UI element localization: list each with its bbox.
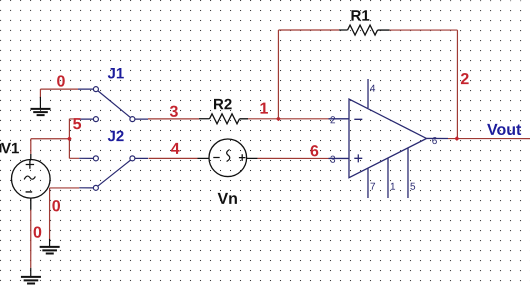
- junction dot node 1: [276, 116, 281, 121]
- svg-text:R2: R2: [213, 96, 232, 113]
- cropped glyph at left edge: [0, 144, 1, 153]
- wire feedback vertical left: [278, 30, 339, 119]
- switch J1: [78, 89, 148, 119]
- wire net 5 (V1+ to J1/J2 throws): [31, 119, 79, 159]
- svg-text:2: 2: [330, 115, 336, 126]
- svg-text:V1: V1: [1, 140, 19, 157]
- svg-text:0: 0: [57, 74, 66, 91]
- svg-text:4: 4: [171, 141, 180, 158]
- svg-text:4: 4: [370, 84, 376, 95]
- svg-text:2: 2: [460, 71, 469, 88]
- noise source Vn: [197, 139, 257, 177]
- svg-text:5: 5: [410, 182, 416, 193]
- svg-text:J1: J1: [108, 65, 125, 82]
- svg-text:Vout: Vout: [487, 122, 522, 139]
- junction dot node 5: [67, 136, 72, 141]
- svg-text:6: 6: [310, 143, 319, 160]
- svg-text:5: 5: [73, 116, 82, 133]
- resistor R2: [199, 114, 248, 124]
- wire net 6: [258, 157, 329, 159]
- wire Vout output: [448, 138, 530, 140]
- wire V1 minus to ground 0: [30, 210, 32, 268]
- svg-text:3: 3: [170, 104, 179, 121]
- svg-text:R1: R1: [351, 8, 370, 25]
- svg-text:0: 0: [33, 225, 42, 242]
- wire net 3: [148, 118, 199, 120]
- switch J2: [79, 158, 148, 188]
- junction dot output node: [454, 136, 459, 141]
- svg-text:6: 6: [432, 136, 438, 147]
- svg-text:Vn: Vn: [217, 191, 237, 208]
- ground 0 (top left): [31, 97, 51, 115]
- wire net 2: [390, 30, 458, 139]
- voltage source V1: [11, 154, 50, 210]
- svg-text:1: 1: [260, 101, 269, 118]
- svg-text:0: 0: [52, 198, 61, 215]
- wire net 4: [148, 157, 197, 159]
- ground 0 (J2): [40, 239, 60, 254]
- wire J2 bottom throw to ground: [50, 188, 80, 240]
- wire V1 plus lead: [30, 139, 32, 154]
- svg-text:3: 3: [330, 155, 336, 166]
- wire net 1: [248, 118, 329, 120]
- wire net 0 to J1 top throw: [40, 89, 78, 98]
- svg-text:1: 1: [390, 182, 396, 193]
- resistor R1: [339, 25, 390, 35]
- svg-text:J2: J2: [107, 128, 124, 145]
- ground 0 (V1): [21, 268, 41, 284]
- op-amp U1: [328, 79, 448, 198]
- svg-text:7: 7: [370, 182, 376, 193]
